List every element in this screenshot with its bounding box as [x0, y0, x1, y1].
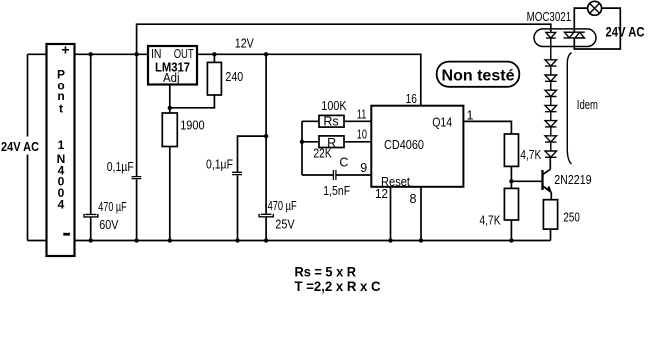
LED inside MOC3021 — [546, 32, 556, 46]
svg-text:Rs: Rs — [323, 115, 338, 129]
svg-text:1: 1 — [467, 108, 474, 122]
wire: branch 470uF 25V — [265, 54, 267, 240]
wire: branch 0,1uF right — [238, 136, 267, 240]
svg-text:12: 12 — [375, 187, 388, 201]
resistor Rs 100K — [302, 120, 319, 122]
svg-text:16: 16 — [406, 92, 417, 106]
wire: pin 12 to ground — [390, 187, 392, 241]
Idem bracket — [567, 53, 571, 165]
svg-text:11: 11 — [357, 107, 367, 121]
svg-text:OUT: OUT — [174, 47, 194, 61]
capacitor 0,1uF right — [232, 172, 242, 174]
capacitor C 1,5nF — [302, 174, 333, 176]
svg-text:4,7K: 4,7K — [520, 148, 542, 162]
svg-text:60V: 60V — [99, 218, 119, 232]
wire: Q14 pin 1 output — [463, 121, 511, 134]
resistor 240 — [213, 54, 215, 62]
node: 0,1uF right tap — [264, 134, 268, 138]
node: gnd 0,1uF right — [235, 238, 239, 242]
node: 12V / 470uF 25V — [264, 52, 268, 56]
svg-text:IN: IN — [151, 47, 162, 61]
capacitor 470uF 25V — [259, 214, 273, 217]
wire: pin 9 — [336, 174, 371, 176]
svg-text:25V: 25V — [275, 218, 295, 232]
svg-text:1: 1 — [58, 138, 65, 152]
capacitor 0,1uF left — [132, 177, 142, 179]
svg-text:Idem: Idem — [577, 98, 598, 112]
svg-text:+: + — [61, 42, 69, 58]
svg-text:24V AC: 24V AC — [606, 25, 645, 40]
node: gnd 470uF60V — [89, 238, 93, 242]
bridge labels — [57, 42, 70, 212]
svg-text:CD4060: CD4060 — [384, 138, 424, 152]
svg-text:4: 4 — [58, 198, 65, 212]
svg-text:2N2219: 2N2219 — [554, 173, 591, 187]
node: gnd 0,1uF left — [134, 238, 138, 242]
node: Adj junction — [168, 106, 172, 110]
svg-text:C: C — [339, 156, 348, 170]
svg-text:12V: 12V — [235, 37, 255, 51]
wire: left AC line upper — [28, 54, 47, 136]
wire: ground rail — [75, 240, 551, 242]
optocoupler U3 MOC3021 capsule — [534, 29, 596, 47]
capacitor 470uF 60V — [84, 214, 98, 217]
node: gnd pin8 — [419, 238, 423, 242]
wire: top unregulated rail — [137, 24, 551, 54]
resistor R4 4,7K lower — [504, 188, 518, 220]
wire: LM317 Adj lead — [169, 85, 171, 108]
IC U2 CD4060 box — [371, 106, 463, 187]
svg-text:0,1µF: 0,1µF — [206, 157, 233, 171]
wire: triac bottom return — [574, 8, 620, 49]
svg-text:470 µF: 470 µF — [268, 199, 297, 213]
node: gnd 470uF25V — [264, 238, 268, 242]
wire: pin 11 — [344, 120, 371, 122]
lamp — [588, 1, 602, 15]
svg-text:22K: 22K — [313, 147, 332, 161]
svg-text:9: 9 — [360, 161, 367, 175]
svg-text:1900: 1900 — [180, 118, 204, 132]
LED chain D1..D7 — [545, 47, 557, 158]
Non teste bubble — [437, 62, 520, 87]
svg-text:0,1µF: 0,1µF — [107, 160, 134, 174]
transistor Q1 2N2219 — [541, 170, 543, 190]
svg-text:240: 240 — [225, 70, 243, 84]
node: base junction — [509, 179, 513, 183]
svg-text:Reset: Reset — [381, 175, 410, 189]
node: bridge+ / 470uF — [89, 52, 93, 56]
bridge minus — [63, 233, 70, 236]
wire: lower 4,7K to ground — [510, 220, 512, 241]
svg-text:10: 10 — [357, 128, 367, 142]
wire: branch 470uF 60V — [90, 54, 92, 240]
resistor R3 4,7K upper — [504, 134, 518, 166]
svg-text:470 µF: 470 µF — [98, 200, 127, 214]
svg-text:Non testé: Non testé — [442, 67, 515, 84]
svg-text:24V AC: 24V AC — [1, 139, 40, 154]
svg-text:1,5nF: 1,5nF — [323, 184, 350, 198]
node: gnd pin12 — [388, 238, 392, 242]
wire: branch 0,1uF left — [136, 54, 138, 240]
bridge rectifier PONT box — [47, 44, 75, 256]
svg-text:250: 250 — [563, 211, 579, 225]
node: gnd 1900 — [168, 238, 172, 242]
transistor emitter arrow — [546, 186, 552, 193]
wire: 12V rail from LM317 OUT to pin16 — [197, 54, 421, 106]
resistor 250 — [543, 200, 557, 229]
wire: left AC line lower — [28, 155, 47, 241]
svg-text:100K: 100K — [321, 99, 347, 113]
node: 240 top — [212, 52, 216, 56]
resistor R 22K — [302, 141, 319, 143]
wire: divider middle — [510, 166, 512, 188]
triac inside MOC3021 — [564, 32, 586, 38]
LM317 U1 box — [148, 46, 197, 85]
svg-text:T =2,2 x R x C: T =2,2 x R x C — [295, 278, 381, 294]
svg-text:Q14: Q14 — [432, 115, 452, 129]
wire: bridge + output to LM317 IN — [75, 53, 149, 55]
wire: pin 8 to ground — [420, 187, 422, 241]
svg-text:8: 8 — [410, 192, 417, 206]
wire: base wire — [511, 180, 542, 182]
resistor 1900 — [169, 108, 171, 113]
node: gnd 4,7K — [509, 238, 513, 242]
svg-text:Rs = 5 x R: Rs = 5 x R — [295, 263, 357, 279]
wire: pin 10 — [344, 141, 371, 143]
node: R left — [300, 140, 304, 144]
svg-text:t: t — [59, 101, 63, 115]
wire: Rs/R/C left bus — [301, 121, 303, 175]
node: top rail tap — [134, 52, 138, 56]
svg-text:Adj: Adj — [163, 71, 180, 85]
svg-text:MOC3021: MOC3021 — [527, 10, 572, 24]
svg-text:4,7K: 4,7K — [480, 214, 502, 228]
wire: triac top to lamp — [574, 8, 587, 32]
wire: 250 to ground — [550, 229, 552, 240]
